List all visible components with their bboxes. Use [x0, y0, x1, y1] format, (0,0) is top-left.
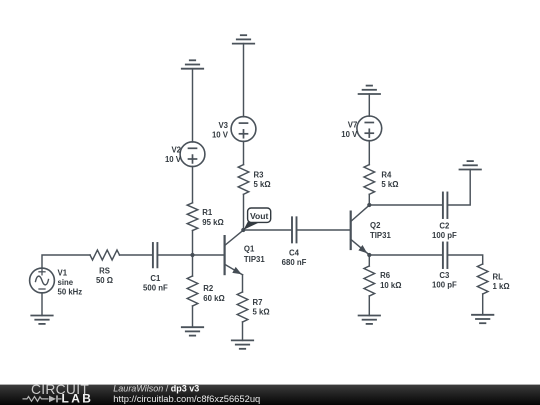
voltage source V3 [231, 117, 256, 142]
wire node A to Q1 base [193, 254, 224, 256]
svg-text:100 pF: 100 pF [432, 231, 457, 240]
resistor R1 [187, 203, 198, 231]
wire V3 to R3 [243, 141, 245, 164]
capacitor C1 [153, 243, 158, 267]
label C1 [143, 274, 168, 293]
svg-text:10 V: 10 V [165, 155, 182, 164]
label RL [493, 273, 510, 291]
wire V2 to R1 [192, 166, 194, 202]
svg-text:LAB: LAB [62, 391, 94, 405]
wire node C to C3 [369, 254, 442, 256]
ground (below R6) [359, 316, 380, 324]
svg-text:V7: V7 [348, 120, 358, 129]
wire C4 to Q2 base [297, 229, 349, 231]
wire V7 to R4 [368, 141, 370, 165]
wire node A to R2 [192, 255, 194, 276]
svg-text:V2: V2 [171, 146, 181, 155]
ground (above V7, inverted) [359, 86, 380, 94]
svg-text:60 kΩ: 60 kΩ [203, 294, 224, 303]
resistor R3 [238, 165, 249, 195]
label Q2 [370, 221, 391, 240]
label V7 [341, 120, 358, 138]
wire node Vout to C4 [244, 229, 292, 231]
label R7 [253, 298, 270, 317]
label RS [96, 267, 113, 286]
label C4 [282, 248, 307, 267]
resistor R2 [187, 276, 198, 306]
label C3 [432, 271, 457, 290]
svg-text:R3: R3 [254, 170, 265, 179]
svg-text:R1: R1 [202, 208, 213, 217]
wire Q1 emitter to R7 [242, 275, 244, 292]
label V3 [212, 121, 229, 139]
svg-text:500 nF: 500 nF [143, 284, 168, 293]
label R4 [381, 170, 398, 189]
svg-text:http://circuitlab.com/c8f6xz56: http://circuitlab.com/c8f6xz56652uq [113, 393, 260, 404]
ground (above C2, inverted) [460, 161, 481, 169]
svg-text:C4: C4 [289, 248, 300, 257]
label C2 [432, 221, 457, 240]
svg-text:R2: R2 [203, 284, 214, 293]
wire V1 bottom to ground [41, 293, 43, 316]
svg-text:TIP31: TIP31 [370, 231, 391, 240]
voltage source V2 [180, 142, 205, 167]
capacitor C2 [443, 193, 448, 219]
wire V1 top to RS [42, 255, 90, 268]
wire C1 to node A [158, 254, 192, 256]
wire node B to C2 [369, 204, 442, 206]
svg-text:RL: RL [493, 273, 504, 282]
svg-text:V1: V1 [58, 268, 68, 277]
capacitor C3 [443, 243, 448, 269]
wire R6 to ground [368, 296, 370, 316]
svg-text:Vout: Vout [250, 211, 269, 221]
Vout label callout [244, 208, 271, 230]
svg-text:5 kΩ: 5 kΩ [253, 308, 270, 317]
svg-text:95 kΩ: 95 kΩ [202, 218, 223, 227]
ground (above V3, inverted) [233, 35, 254, 43]
svg-text:C3: C3 [439, 271, 450, 280]
node A junction dot [190, 253, 194, 257]
wire RL to ground [482, 294, 484, 315]
node Vout junction dot [241, 228, 245, 232]
svg-text:R6: R6 [380, 271, 391, 280]
svg-text:1 kΩ: 1 kΩ [493, 282, 510, 291]
label R1 [202, 208, 223, 227]
ground (below V1) [31, 316, 52, 324]
voltage source V1 [30, 268, 55, 293]
svg-text:100 pF: 100 pF [432, 281, 457, 290]
wire node C to R6 [368, 255, 370, 266]
capacitor C4 [292, 217, 297, 242]
svg-text:C1: C1 [150, 274, 161, 283]
transistor Q2 [351, 205, 370, 255]
svg-text:Q1: Q1 [244, 245, 255, 254]
svg-text:50 kHz: 50 kHz [58, 288, 83, 297]
svg-text:10 kΩ: 10 kΩ [380, 281, 401, 290]
wire RS to C1 [120, 254, 153, 256]
transistor Q1 [225, 230, 244, 275]
wire ground to V3 [243, 44, 245, 117]
ground (above V2, inverted) [182, 60, 203, 68]
label V1 [58, 268, 83, 296]
node C junction dot [367, 253, 371, 257]
svg-text:R4: R4 [381, 170, 392, 179]
wire ground to V2 [192, 69, 194, 142]
wire R3 to node Vout [243, 194, 245, 230]
svg-text:50 Ω: 50 Ω [96, 276, 113, 285]
CircuitLab logo [23, 382, 94, 405]
wire R1 to node A [192, 231, 194, 256]
svg-text:sine: sine [58, 278, 74, 287]
wire R7 to ground [242, 322, 244, 340]
label R3 [254, 170, 271, 189]
ground (below RL) [472, 315, 493, 323]
ground (below R7) [232, 340, 253, 348]
resistor R7 [237, 292, 248, 322]
voltage source V7 [357, 116, 382, 141]
footer credit text [113, 384, 260, 404]
svg-text:Q2: Q2 [370, 221, 381, 230]
label Q1 [244, 245, 265, 265]
svg-text:V3: V3 [218, 121, 228, 130]
svg-text:5 kΩ: 5 kΩ [381, 180, 398, 189]
svg-text:R7: R7 [253, 298, 263, 307]
node B junction dot [367, 203, 371, 207]
resistor R6 [364, 266, 375, 296]
svg-text:RS: RS [99, 267, 110, 276]
svg-text:10 V: 10 V [341, 130, 358, 139]
wire ground to V7 [368, 94, 370, 116]
label R6 [380, 271, 401, 290]
label R2 [203, 284, 224, 303]
resistor RS [90, 250, 120, 260]
svg-text:680 nF: 680 nF [282, 258, 307, 267]
wire C3 to RL [448, 255, 482, 264]
ground (below R2) [182, 327, 203, 335]
svg-text:5 kΩ: 5 kΩ [254, 180, 271, 189]
label V2 [165, 146, 182, 164]
svg-text:C2: C2 [439, 221, 450, 230]
resistor RL [477, 264, 488, 294]
wire R2 to ground [192, 306, 194, 327]
svg-text:TIP31: TIP31 [244, 255, 265, 264]
wire R4 to node B [368, 194, 370, 205]
svg-text:10 V: 10 V [212, 131, 229, 140]
resistor R4 [364, 165, 375, 195]
wire C2 to ground [448, 170, 470, 206]
